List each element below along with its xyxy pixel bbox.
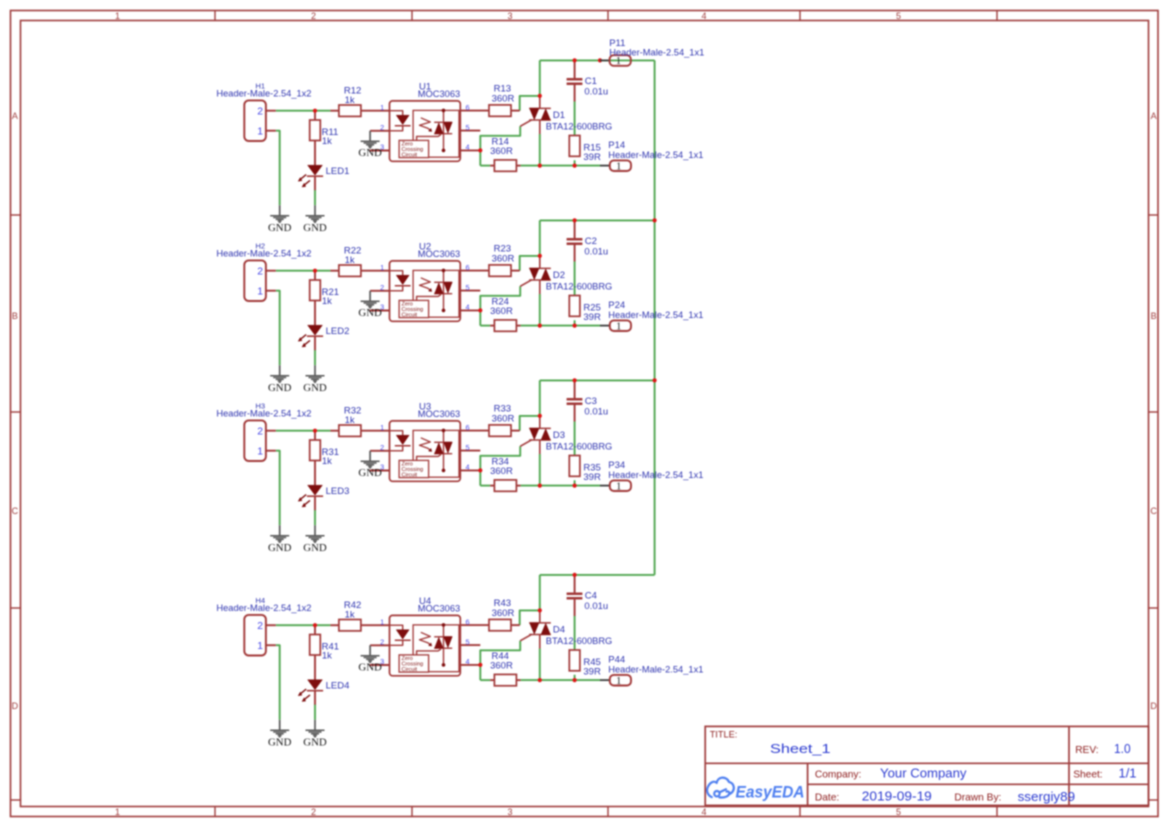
- frame column labels bottom: [115, 807, 901, 817]
- svg-text:REV:: REV:: [1075, 745, 1098, 756]
- junction node triac D3 MT2: [538, 414, 542, 418]
- junction node H3.2 / R31: [313, 429, 317, 433]
- LED LED3: [298, 485, 349, 507]
- svg-text:BTA12-600BRG: BTA12-600BRG: [546, 442, 613, 452]
- junction node R25 bottom at bottom row: [573, 324, 577, 328]
- svg-text:LED2: LED2: [326, 326, 350, 337]
- resistor R41 1k: [310, 635, 339, 662]
- wire triac gate net channel 1: [480, 126, 520, 165]
- svg-text:360R: 360R: [492, 413, 515, 424]
- svg-text:2: 2: [257, 106, 263, 117]
- wire maroon leads channel 3: [266, 380, 575, 510]
- connector P24 Header-Male-2.54_1x1 (bottom): [600, 300, 703, 332]
- ground symbol at U4 pin 2: [358, 645, 382, 673]
- svg-text:1: 1: [616, 160, 621, 172]
- resistor R45 39R: [569, 650, 601, 678]
- wire C4 to R45: [574, 616, 576, 680]
- title block texts: [710, 729, 1137, 804]
- svg-text:1k: 1k: [322, 136, 332, 147]
- junction node R35 bottom at bottom row: [573, 484, 577, 488]
- svg-text:360R: 360R: [492, 93, 515, 104]
- frame row labels right: [1150, 111, 1157, 711]
- svg-text:39R: 39R: [583, 472, 601, 483]
- svg-text:MOC3063: MOC3063: [418, 249, 460, 259]
- svg-text:5: 5: [466, 283, 470, 292]
- resistor R35 39R: [569, 456, 601, 484]
- resistor R13 360R: [489, 84, 514, 117]
- wire triac gate net channel 4: [480, 641, 520, 680]
- svg-text:Circuit: Circuit: [402, 312, 418, 318]
- svg-text:Header-Male-2.54_1x2: Header-Male-2.54_1x2: [216, 603, 311, 613]
- svg-text:1: 1: [257, 446, 263, 457]
- EasyEDA logo: [707, 778, 804, 802]
- svg-text:MOC3063: MOC3063: [418, 603, 460, 613]
- svg-text:1: 1: [115, 807, 120, 817]
- U3 pin numbers: [380, 423, 469, 472]
- svg-text:1: 1: [257, 641, 263, 652]
- svg-text:GND: GND: [303, 542, 327, 554]
- title block: [705, 726, 1148, 805]
- resistor R44 360R: [490, 651, 516, 686]
- svg-text:2: 2: [380, 123, 384, 132]
- wire triac MT1 down channel 2: [539, 294, 541, 326]
- svg-text:ssergiy89: ssergiy89: [1018, 789, 1076, 804]
- triac D1 BTA12-600BRG: [520, 96, 612, 134]
- ground symbol under LED3: [303, 525, 327, 554]
- svg-text:A: A: [12, 111, 18, 121]
- svg-text:Circuit: Circuit: [402, 472, 418, 478]
- svg-text:C2: C2: [585, 236, 597, 247]
- svg-text:5: 5: [896, 11, 901, 21]
- svg-text:0.01u: 0.01u: [584, 87, 608, 98]
- svg-text:LED3: LED3: [326, 486, 350, 497]
- svg-text:1k: 1k: [322, 650, 332, 661]
- svg-text:360R: 360R: [492, 608, 515, 619]
- svg-text:Company:: Company:: [815, 769, 861, 780]
- svg-text:1.0: 1.0: [1114, 741, 1131, 756]
- svg-text:39R: 39R: [583, 667, 601, 678]
- svg-text:1: 1: [616, 675, 621, 687]
- U2 labels: [418, 242, 460, 259]
- svg-text:2: 2: [311, 807, 316, 817]
- svg-text:GND: GND: [358, 147, 382, 159]
- connector P44 Header-Male-2.54_1x1 (bottom): [600, 655, 703, 687]
- svg-text:D2: D2: [553, 270, 565, 281]
- svg-text:Header-Male-2.54_1x1: Header-Male-2.54_1x1: [608, 664, 703, 674]
- svg-text:GND: GND: [303, 737, 327, 749]
- svg-text:Drawn By:: Drawn By:: [954, 792, 1001, 803]
- junction node C3 top at AC row: [573, 378, 577, 382]
- junction node triac D1 MT2: [538, 94, 542, 98]
- svg-text:D3: D3: [553, 430, 565, 441]
- svg-text:1k: 1k: [345, 95, 355, 106]
- svg-text:2: 2: [257, 426, 263, 437]
- svg-text:1k: 1k: [322, 456, 332, 467]
- svg-text:2: 2: [311, 11, 316, 21]
- junction node H1.2 / R11: [313, 109, 317, 113]
- svg-text:Header-Male-2.54_1x1: Header-Male-2.54_1x1: [608, 470, 703, 480]
- frame column labels top: [115, 11, 901, 21]
- svg-text:TITLE:: TITLE:: [710, 729, 738, 739]
- resistor R12 1k: [339, 85, 361, 116]
- resistor R43 360R: [489, 598, 514, 631]
- U4 labels: [418, 596, 460, 613]
- optocoupler U4 MOC3063: [390, 615, 461, 675]
- resistor R14 360R: [490, 136, 516, 171]
- svg-text:1: 1: [257, 286, 263, 297]
- wire R13 to triac top node: [520, 96, 540, 111]
- svg-text:4: 4: [466, 657, 470, 666]
- triac D2 BTA12-600BRG: [520, 256, 612, 294]
- junction node triac D2 MT2: [538, 254, 542, 258]
- svg-text:GND: GND: [268, 382, 292, 394]
- resistor R23 360R: [489, 244, 514, 277]
- connector P34 Header-Male-2.54_1x1 (bottom): [600, 460, 703, 492]
- svg-text:C: C: [1150, 506, 1157, 516]
- svg-text:6: 6: [466, 103, 470, 112]
- wire net channel 3 H pin1 to GND: [276, 451, 280, 526]
- svg-text:2: 2: [380, 443, 384, 452]
- svg-text:1: 1: [380, 263, 384, 272]
- svg-text:GND: GND: [268, 737, 292, 749]
- svg-text:0.01u: 0.01u: [584, 601, 608, 612]
- wire top AC row channel 4: [540, 575, 655, 611]
- svg-text:39R: 39R: [583, 152, 601, 163]
- svg-text:Circuit: Circuit: [402, 667, 418, 673]
- svg-text:B: B: [12, 311, 18, 321]
- ground symbol under H2 pin1: [268, 365, 292, 394]
- svg-text:C1: C1: [585, 76, 597, 87]
- svg-text:GND: GND: [358, 661, 382, 673]
- svg-text:1k: 1k: [345, 609, 355, 620]
- svg-text:D: D: [12, 701, 19, 711]
- svg-text:1: 1: [115, 11, 120, 21]
- svg-text:2: 2: [257, 621, 263, 632]
- wire bottom row channel 2: [480, 325, 600, 327]
- svg-text:Header-Male-2.54_1x2: Header-Male-2.54_1x2: [216, 409, 311, 419]
- svg-text:Header-Male-2.54_1x1: Header-Male-2.54_1x1: [608, 310, 703, 320]
- resistor R31 1k: [310, 440, 339, 467]
- wire C2 to R25: [574, 262, 576, 326]
- svg-text:6: 6: [466, 423, 470, 432]
- svg-text:6: 6: [466, 263, 470, 272]
- junction node U2 pin 4: [478, 308, 482, 312]
- svg-text:Header-Male-2.54_1x2: Header-Male-2.54_1x2: [216, 249, 311, 259]
- junction node U1 pin 4: [478, 148, 482, 152]
- connector H2 Header-Male-2.54_1x2: [216, 241, 311, 301]
- svg-text:1k: 1k: [345, 255, 355, 266]
- LED LED1: [298, 165, 349, 187]
- resistor R33 360R: [489, 404, 514, 437]
- svg-text:D1: D1: [553, 110, 565, 121]
- junction node C1 top at AC row: [573, 58, 577, 62]
- svg-text:1k: 1k: [345, 415, 355, 426]
- capacitor C3 0.01u: [567, 396, 609, 417]
- wire C3 to R35: [574, 422, 576, 486]
- svg-text:3: 3: [507, 11, 512, 21]
- junction node C2 top at AC row: [573, 218, 577, 222]
- wire top AC row channel 1: [540, 60, 655, 96]
- capacitor C1 0.01u: [567, 76, 609, 97]
- U1 pin numbers: [380, 103, 469, 152]
- ground symbol under H1 pin1: [268, 205, 292, 234]
- svg-text:0.01u: 0.01u: [584, 407, 608, 418]
- connector P11 Header-Male-2.54_1x1 (top): [598, 38, 704, 67]
- wire LED1 cathode to GND: [314, 190, 316, 206]
- svg-text:LED1: LED1: [326, 166, 350, 177]
- svg-text:Sheet_1: Sheet_1: [770, 741, 831, 756]
- U1 labels: [418, 82, 460, 99]
- svg-text:4: 4: [466, 143, 470, 152]
- svg-text:1: 1: [380, 423, 384, 432]
- svg-text:4: 4: [466, 303, 470, 312]
- wire triac MT1 down channel 1: [539, 134, 541, 166]
- svg-text:2019-09-19: 2019-09-19: [862, 788, 932, 803]
- triac D3 BTA12-600BRG: [520, 416, 612, 454]
- svg-text:4: 4: [466, 463, 470, 472]
- svg-text:1: 1: [616, 480, 621, 492]
- svg-text:Header-Male-2.54_1x1: Header-Male-2.54_1x1: [608, 150, 703, 160]
- svg-text:GND: GND: [268, 542, 292, 554]
- resistor R22 1k: [339, 245, 361, 276]
- triac D4 BTA12-600BRG: [520, 610, 612, 648]
- resistor R11 1k: [310, 120, 339, 147]
- junction node H4.2 / R41: [313, 623, 317, 627]
- ground symbol at U3 pin 2: [358, 451, 382, 479]
- svg-text:BTA12-600BRG: BTA12-600BRG: [546, 636, 613, 646]
- resistor R34 360R: [490, 456, 516, 491]
- ground symbol under H4 pin1: [268, 720, 292, 749]
- connector H1 Header-Male-2.54_1x2: [216, 81, 311, 141]
- wire LED2 cathode to GND: [314, 350, 316, 366]
- svg-text:360R: 360R: [492, 253, 515, 264]
- wire R23 to triac top node: [520, 256, 540, 271]
- wire C1 to R15: [574, 102, 576, 166]
- svg-text:Header-Male-2.54_1x1: Header-Male-2.54_1x1: [609, 48, 704, 58]
- svg-text:LED4: LED4: [326, 681, 350, 692]
- wire net channel 2 H pin1 to GND: [276, 291, 280, 366]
- resistor R24 360R: [490, 296, 516, 331]
- wire triac gate net channel 3: [480, 446, 520, 485]
- svg-text:BTA12-600BRG: BTA12-600BRG: [546, 122, 613, 132]
- wire R33 to triac top node: [520, 416, 540, 431]
- svg-text:5: 5: [466, 443, 470, 452]
- junction node triac D1 MT1 at bottom row: [538, 164, 542, 168]
- svg-text:1: 1: [380, 103, 384, 112]
- svg-text:1/1: 1/1: [1119, 765, 1137, 780]
- svg-text:0.01u: 0.01u: [584, 247, 608, 258]
- svg-text:A: A: [1151, 111, 1157, 121]
- wire top AC row channel 3: [540, 380, 655, 416]
- svg-text:MOC3063: MOC3063: [418, 89, 460, 99]
- ground symbol at U1 pin 2: [358, 131, 382, 159]
- svg-text:360R: 360R: [490, 146, 513, 157]
- junction node R15 bottom at bottom row: [573, 164, 577, 168]
- svg-text:GND: GND: [303, 222, 327, 234]
- wire bottom row channel 3: [480, 485, 600, 487]
- svg-text:4: 4: [701, 11, 706, 21]
- wire triac MT1 down channel 3: [539, 454, 541, 486]
- junction node R45 bottom at bottom row: [573, 678, 577, 682]
- frame row labels left: [12, 111, 19, 711]
- U4 pin numbers: [380, 617, 469, 666]
- svg-text:6: 6: [466, 617, 470, 626]
- resistor R25 39R: [569, 296, 601, 324]
- svg-text:Sheet:: Sheet:: [1073, 769, 1102, 780]
- optocoupler U3 MOC3063: [390, 421, 461, 481]
- svg-text:D: D: [1150, 701, 1157, 711]
- svg-text:5: 5: [466, 123, 470, 132]
- wire maroon leads channel 4: [266, 575, 575, 705]
- svg-text:GND: GND: [358, 307, 382, 319]
- junction node channel 3 at right bus: [653, 378, 657, 382]
- svg-text:360R: 360R: [490, 466, 513, 477]
- wire bottom row channel 1: [480, 165, 600, 167]
- wire net channel 1 H pin2 to R12: [276, 110, 331, 112]
- U3 labels: [418, 402, 460, 419]
- wire LED3 cathode to GND: [314, 510, 316, 526]
- connector H4 Header-Male-2.54_1x2: [216, 596, 311, 656]
- svg-text:1: 1: [257, 126, 263, 137]
- junction node triac D4 MT2: [538, 608, 542, 612]
- optocoupler U2 MOC3063: [390, 261, 461, 321]
- connector P14 Header-Male-2.54_1x1 (bottom): [600, 140, 703, 172]
- capacitor C2 0.01u: [567, 236, 609, 257]
- svg-text:C4: C4: [585, 591, 597, 602]
- wire triac gate net channel 2: [480, 286, 520, 325]
- ground symbol under LED4: [303, 720, 327, 749]
- svg-text:EasyEDA: EasyEDA: [736, 783, 805, 801]
- junction node triac D4 MT1 at bottom row: [538, 678, 542, 682]
- optocoupler U1 MOC3063: [390, 101, 461, 161]
- svg-text:D4: D4: [553, 625, 565, 636]
- svg-text:39R: 39R: [583, 312, 601, 323]
- junction node U3 pin 4: [478, 468, 482, 472]
- LED LED4: [298, 680, 349, 702]
- ground symbol at U2 pin 2: [358, 291, 382, 319]
- wire bottom row channel 4: [480, 679, 600, 681]
- resistor R32 1k: [339, 405, 361, 436]
- capacitor C4 0.01u: [567, 591, 609, 612]
- ground symbol under H3 pin1: [268, 525, 292, 554]
- wire triac MT1 down channel 4: [539, 649, 541, 681]
- junction node triac D3 MT1 at bottom row: [538, 484, 542, 488]
- junction node H2.2 / R21: [313, 269, 317, 273]
- svg-text:1: 1: [380, 617, 384, 626]
- wire R43 to triac top node: [520, 610, 540, 625]
- svg-text:MOC3063: MOC3063: [418, 409, 460, 419]
- svg-text:GND: GND: [303, 382, 327, 394]
- junction node U4 pin 4: [478, 663, 482, 667]
- wire net channel 1 H pin1 to GND: [276, 131, 280, 206]
- svg-text:B: B: [1151, 311, 1157, 321]
- U2 pin numbers: [380, 263, 469, 312]
- ground symbol under LED1: [303, 205, 327, 234]
- svg-text:360R: 360R: [490, 306, 513, 317]
- svg-text:5: 5: [896, 807, 901, 817]
- junction node channel 2 at right bus: [653, 218, 657, 222]
- svg-text:2: 2: [380, 283, 384, 292]
- resistor R21 1k: [310, 280, 339, 307]
- wire net channel 3 H pin2 to R32: [276, 430, 331, 432]
- svg-text:GND: GND: [268, 222, 292, 234]
- connector H3 Header-Male-2.54_1x2: [216, 401, 311, 461]
- svg-text:360R: 360R: [490, 660, 513, 671]
- svg-text:Header-Male-2.54_1x2: Header-Male-2.54_1x2: [216, 89, 311, 99]
- svg-text:C: C: [12, 506, 19, 516]
- svg-text:3: 3: [507, 807, 512, 817]
- junction node triac D2 MT1 at bottom row: [538, 324, 542, 328]
- wire maroon leads channel 2: [266, 220, 575, 350]
- wire right AC bus: [654, 60, 656, 575]
- svg-text:Date:: Date:: [815, 792, 839, 803]
- svg-text:C3: C3: [585, 396, 597, 407]
- wire net channel 4 H pin1 to GND: [276, 645, 280, 720]
- resistor R42 1k: [339, 600, 361, 631]
- svg-text:Circuit: Circuit: [402, 152, 418, 158]
- wire net channel 2 H pin2 to R22: [276, 270, 331, 272]
- wire net channel 4 H pin2 to R42: [276, 624, 331, 626]
- svg-text:GND: GND: [358, 467, 382, 479]
- svg-text:2: 2: [380, 637, 384, 646]
- wire LED4 cathode to GND: [314, 704, 316, 720]
- junction node C4 top at AC row: [573, 573, 577, 577]
- svg-text:Your Company: Your Company: [880, 765, 967, 780]
- svg-text:1: 1: [616, 320, 621, 332]
- svg-text:5: 5: [466, 637, 470, 646]
- wire top AC row channel 2: [540, 220, 655, 256]
- ground symbol under LED2: [303, 365, 327, 394]
- LED LED2: [298, 325, 349, 347]
- resistor R15 39R: [569, 136, 601, 164]
- svg-text:BTA12-600BRG: BTA12-600BRG: [546, 282, 613, 292]
- svg-text:1k: 1k: [322, 296, 332, 307]
- svg-text:2: 2: [257, 266, 263, 277]
- svg-text:4: 4: [701, 807, 706, 817]
- wire maroon leads channel 1: [266, 60, 575, 190]
